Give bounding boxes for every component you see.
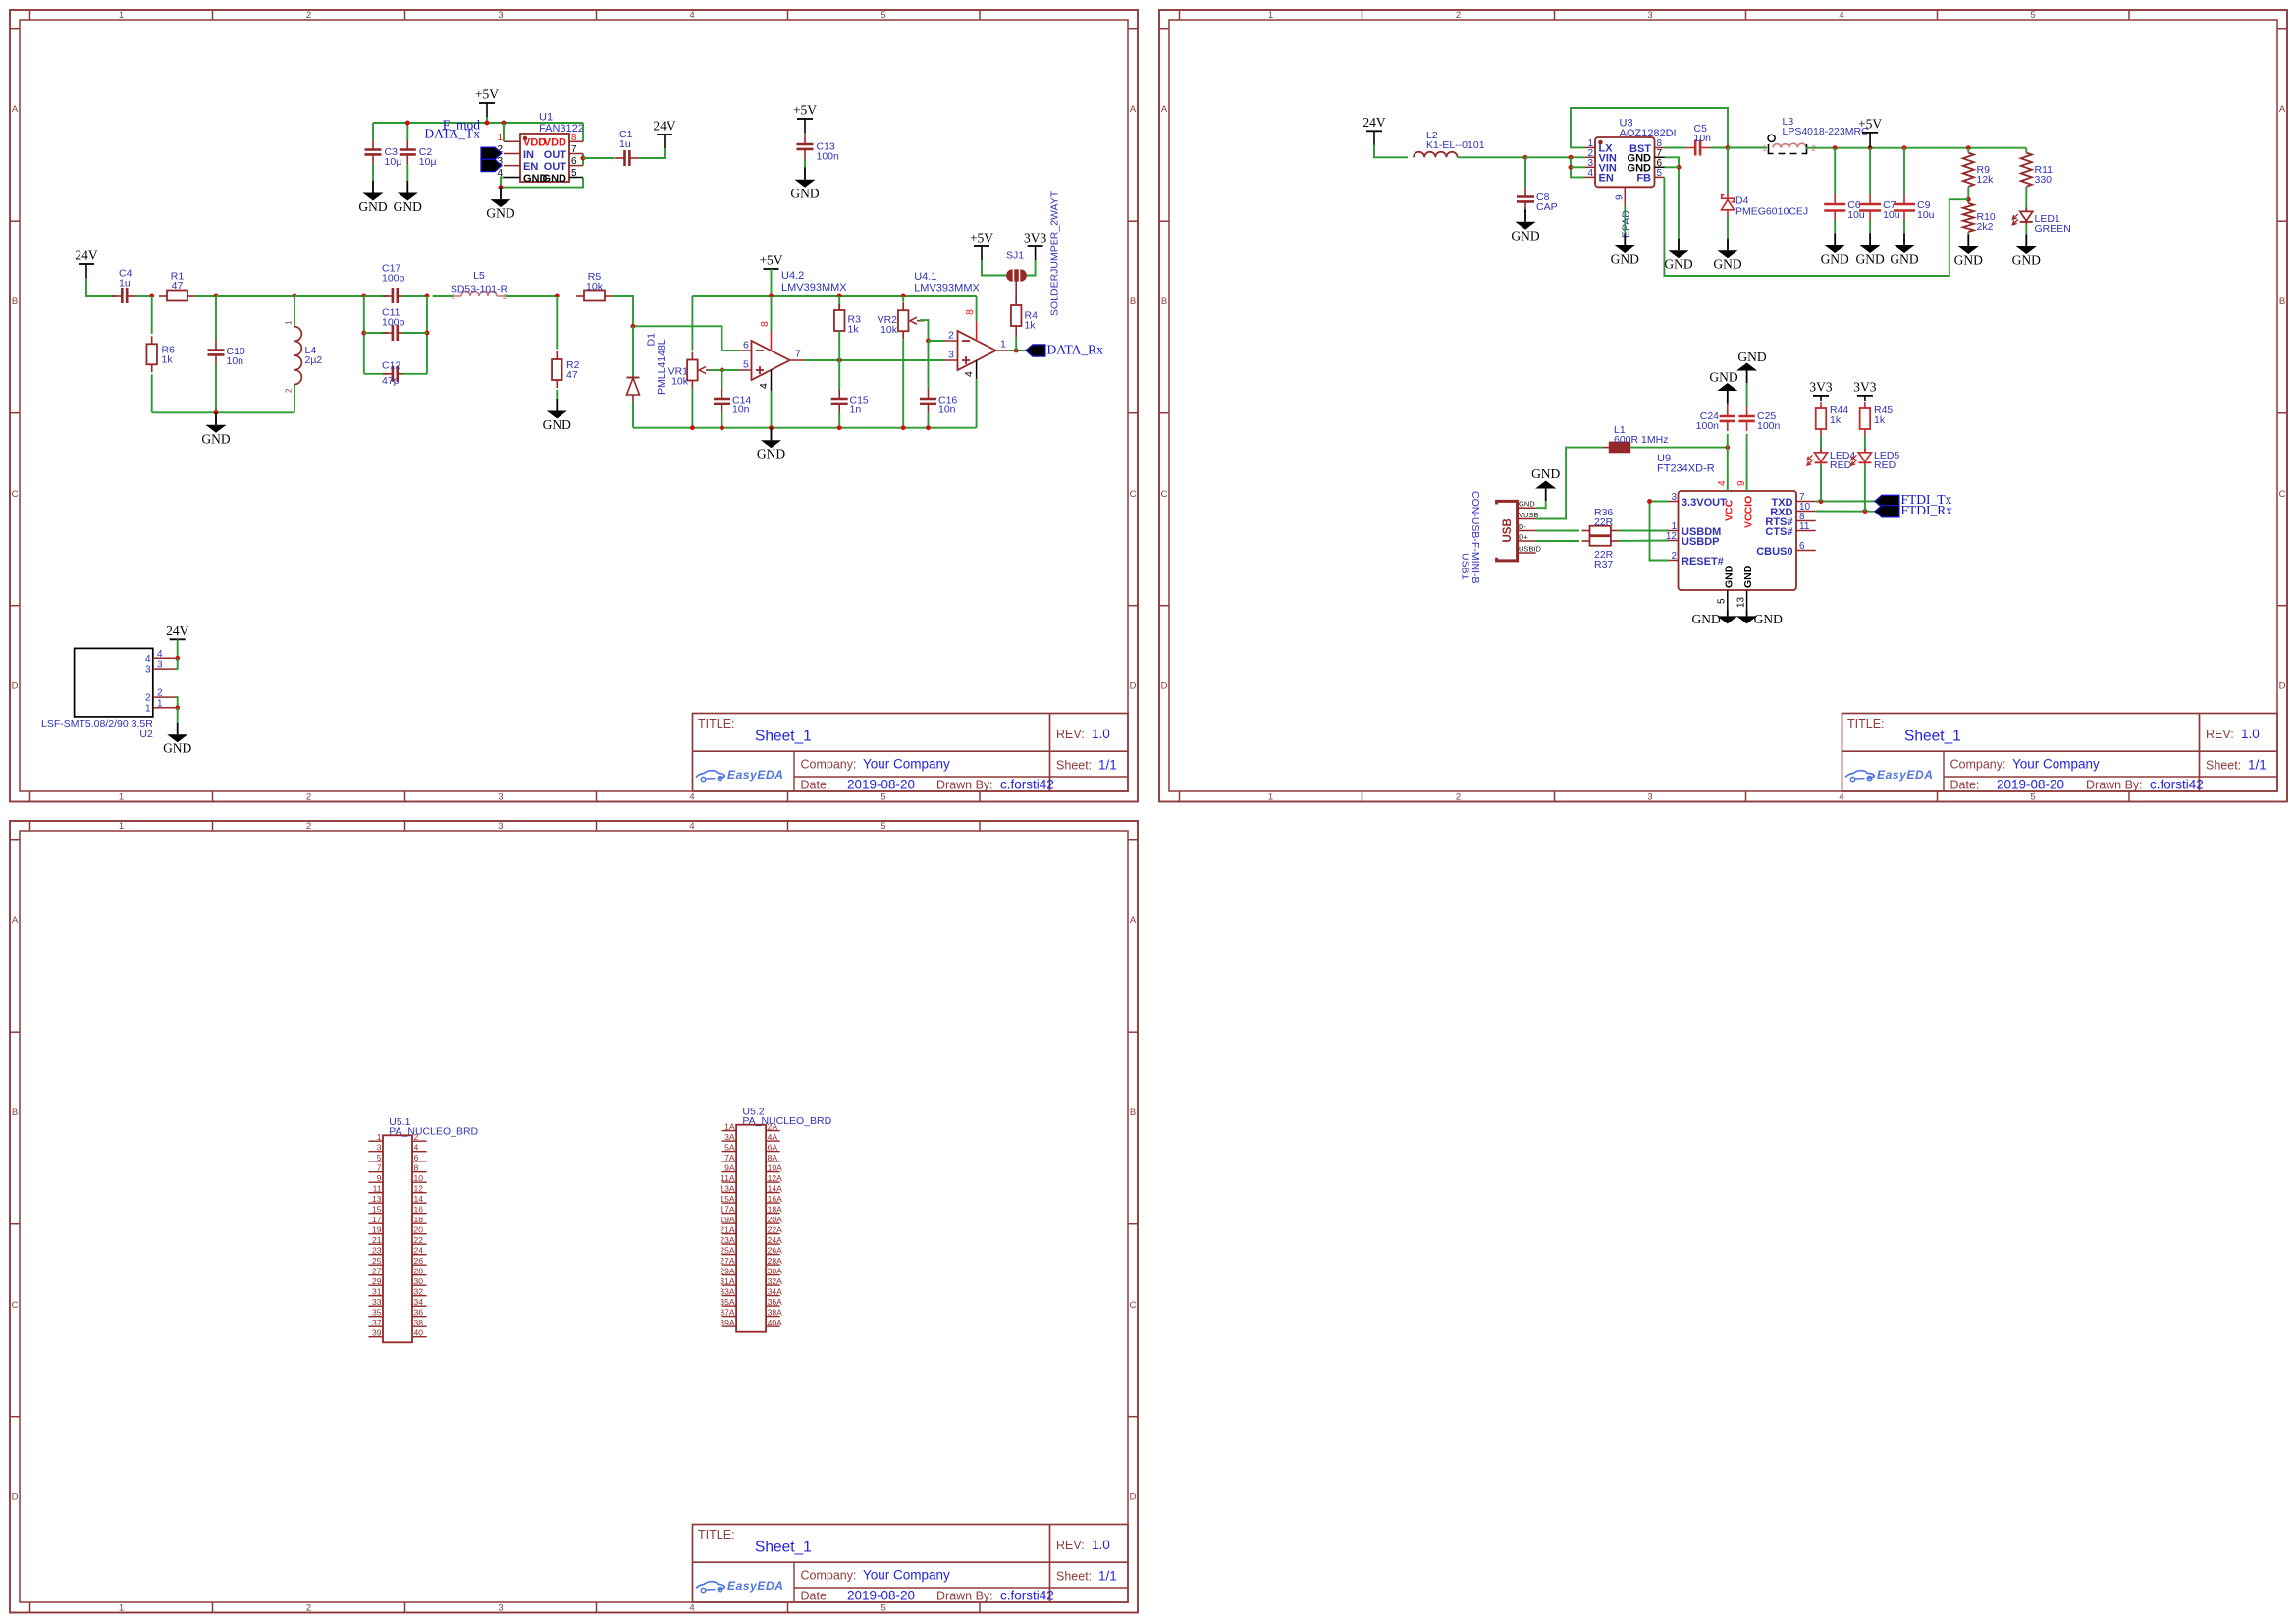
svg-text:GND: GND — [1737, 350, 1766, 364]
svg-text:GND: GND — [1742, 565, 1754, 588]
junction pin1 branch — [502, 121, 507, 126]
wire +5V to C13 black — [804, 119, 806, 133]
svg-text:40A: 40A — [768, 1318, 783, 1327]
svg-text:38: 38 — [414, 1318, 424, 1327]
power flag +5V (U1) — [475, 87, 499, 104]
resistor R2 — [552, 351, 562, 388]
U4.1 labels — [914, 271, 980, 295]
svg-text:A: A — [1161, 104, 1168, 115]
USB1 pin GND — [1518, 500, 1536, 509]
U1 pin 8 — [569, 133, 583, 143]
svg-text:15: 15 — [372, 1205, 382, 1215]
wire R6 bottom — [151, 374, 153, 412]
svg-text:SD53-101-R: SD53-101-R — [451, 284, 508, 296]
junction R9 top — [1966, 145, 1971, 150]
power flag 3V3 (R44) — [1809, 379, 1832, 396]
svg-text:USBID: USBID — [1519, 545, 1542, 554]
U5.2 pin 27A — [720, 1256, 736, 1266]
svg-text:Sheet_1: Sheet_1 — [1904, 729, 1961, 745]
svg-text:3: 3 — [498, 1603, 503, 1614]
svg-text:C12: C12 — [382, 360, 400, 372]
svg-text:13: 13 — [372, 1194, 382, 1204]
svg-text:2: 2 — [285, 388, 294, 393]
svg-text:GND: GND — [1664, 257, 1692, 272]
wire R3 stem — [838, 296, 840, 310]
svg-text:GND: GND — [543, 417, 571, 432]
svg-text:Date:: Date: — [801, 1590, 830, 1603]
svg-text:30A: 30A — [768, 1266, 783, 1275]
wire output line continues — [839, 359, 944, 361]
svg-text:11: 11 — [1799, 521, 1810, 532]
svg-text:19: 19 — [372, 1225, 382, 1235]
junction C11 left — [361, 331, 366, 336]
svg-text:1k: 1k — [1874, 414, 1886, 426]
junction U2 pin4 — [175, 656, 180, 661]
svg-text:6: 6 — [414, 1153, 419, 1162]
svg-text:GND: GND — [1890, 252, 1918, 267]
junction FB node — [1966, 197, 1971, 202]
U5.2 pin 39A — [720, 1318, 736, 1327]
svg-text:1: 1 — [1000, 339, 1006, 351]
wire C4 to node — [136, 295, 152, 297]
junction VR1 wiper — [720, 368, 724, 373]
svg-text:Date:: Date: — [1950, 779, 1980, 792]
resistor R37 — [1582, 536, 1619, 546]
capacitor C2 — [400, 140, 416, 165]
wire 24V stem — [86, 278, 116, 296]
U5.2 pin 30A — [766, 1266, 782, 1275]
svg-text:3V3: 3V3 — [1853, 379, 1876, 394]
capacitor C4 — [112, 288, 136, 303]
svg-text:3: 3 — [1647, 10, 1652, 21]
svg-text:12A: 12A — [768, 1173, 783, 1183]
U5.1 pin 19 — [368, 1225, 383, 1235]
U5.1 pin 2 — [412, 1132, 427, 1142]
svg-text:R37: R37 — [1594, 559, 1613, 570]
junction output/C15 — [837, 358, 842, 363]
op-amp U4.2 LMV393MMX (comparator) — [752, 341, 790, 380]
svg-text:EasyEDA: EasyEDA — [727, 1579, 784, 1593]
junction caps left — [361, 294, 366, 298]
wire 3V3 stem black — [1035, 246, 1037, 260]
wire R11 riser — [2025, 148, 2027, 153]
svg-text:17A: 17A — [720, 1204, 735, 1214]
svg-text:B: B — [12, 297, 18, 307]
wire RESET to 3.3VOUT — [1650, 502, 1669, 561]
svg-text:4: 4 — [689, 821, 694, 832]
capacitor C5 — [1685, 140, 1710, 156]
svg-text:D: D — [12, 681, 19, 692]
U5.1 pin 21 — [368, 1235, 383, 1245]
LED LED5 RED — [1851, 449, 1872, 467]
wire L1 to VCC — [1630, 447, 1728, 449]
USB1 pin USBID — [1518, 545, 1542, 554]
svg-text:38A: 38A — [768, 1307, 783, 1317]
svg-text:2: 2 — [948, 330, 954, 342]
svg-text:36: 36 — [414, 1308, 424, 1318]
power flag 24V (C1) — [653, 119, 676, 135]
svg-text:Company:: Company: — [801, 758, 857, 772]
ground (R2) — [543, 399, 571, 432]
ground (U9 pin5) — [1692, 610, 1738, 626]
svg-text:6: 6 — [743, 340, 749, 351]
junction TXD/LED4 — [1819, 499, 1824, 504]
wire SJ1 right to 3V3 — [1027, 260, 1036, 276]
U4.2 pin 8 supply — [759, 321, 772, 351]
svg-text:25: 25 — [372, 1256, 382, 1266]
svg-text:10µ: 10µ — [385, 156, 402, 168]
U9 pin 3 3.3VOUT — [1669, 492, 1728, 509]
svg-text:47: 47 — [172, 280, 184, 292]
svg-text:7A: 7A — [724, 1153, 735, 1162]
ground (C6) — [1821, 234, 1849, 267]
svg-text:1: 1 — [1763, 144, 1768, 153]
wire C25 to gnd — [1746, 383, 1748, 406]
svg-text:GND: GND — [1709, 370, 1737, 385]
svg-text:1: 1 — [145, 703, 151, 714]
svg-text:1u: 1u — [119, 277, 131, 289]
wire FB feedback — [1664, 177, 1968, 276]
svg-text:c.forsti42: c.forsti42 — [2150, 778, 2204, 792]
U3 pin 8 BST — [1629, 138, 1665, 155]
junction VIN pin2 — [1569, 155, 1574, 160]
U5.1 pin 35 — [368, 1308, 383, 1318]
svg-text:5: 5 — [377, 1153, 382, 1162]
junction caps right — [425, 294, 430, 298]
wire 24V stem black — [85, 264, 87, 278]
svg-text:2: 2 — [1456, 10, 1461, 21]
U5.1 pin 24 — [412, 1246, 427, 1256]
wire C14 top — [721, 370, 723, 389]
svg-text:IN: IN — [523, 149, 534, 161]
U5.2 pin 29A — [720, 1266, 736, 1275]
resistor R6 — [146, 336, 157, 372]
svg-text:GND: GND — [1855, 252, 1884, 267]
wire D1 top — [632, 326, 634, 377]
U5.2 pin 37A — [720, 1307, 736, 1317]
U9 pin 1 USBDM — [1669, 521, 1722, 538]
svg-text:4: 4 — [414, 1143, 419, 1153]
svg-text:5: 5 — [881, 792, 885, 803]
wire SJ1 left to +5V — [982, 260, 1006, 276]
junction gnd rail C14 — [720, 425, 724, 430]
wire L4 node to caps — [294, 295, 364, 297]
wire C10 top — [215, 296, 217, 341]
VR1 labels — [668, 366, 689, 388]
svg-text:4: 4 — [689, 10, 694, 21]
svg-text:11A: 11A — [721, 1173, 735, 1183]
net port DATA_Rx — [1026, 343, 1103, 357]
wire 24V stem (sheet2) — [1374, 145, 1408, 158]
wire +5V stem black — [486, 103, 488, 117]
svg-text:A: A — [1130, 915, 1137, 926]
svg-text:3V3: 3V3 — [1024, 231, 1046, 245]
wire U4.1 pin4 down — [976, 379, 978, 428]
U9 pin 9 VCCIO — [1736, 475, 1755, 528]
wire C12 left — [364, 373, 388, 375]
svg-text:10A: 10A — [768, 1162, 783, 1172]
U5.2 pin 19A — [720, 1215, 736, 1224]
resistor R5 — [576, 291, 613, 301]
wire VR2 stem — [902, 296, 904, 302]
U5.1 pin 6 — [412, 1153, 427, 1162]
svg-text:U4.1: U4.1 — [914, 271, 936, 283]
svg-text:5: 5 — [2030, 792, 2035, 803]
svg-text:2: 2 — [414, 1132, 419, 1142]
resistor R3 — [834, 304, 845, 337]
svg-text:5: 5 — [881, 10, 885, 21]
ground (USB1) — [1531, 466, 1560, 501]
junction C9 — [1902, 145, 1907, 150]
junction gnd rail C16 — [926, 425, 931, 430]
wire C15 bottom — [838, 413, 840, 428]
U5.2 pin 33A — [720, 1286, 736, 1296]
svg-text:28: 28 — [414, 1267, 424, 1276]
U3 pin 4 EN — [1585, 168, 1614, 185]
capacitor C3 — [365, 140, 382, 165]
wire VCCIO up — [1746, 448, 1748, 491]
wire C16 bottom — [928, 413, 930, 428]
svg-text:GND: GND — [1511, 228, 1539, 243]
wire D1 bottom — [632, 401, 634, 428]
svg-text:RESET#: RESET# — [1682, 556, 1724, 568]
svg-text:REV:: REV: — [2206, 728, 2234, 741]
svg-text:EN: EN — [1599, 173, 1614, 185]
U5.2 pin 7A — [722, 1153, 737, 1162]
svg-text:VUSB: VUSB — [1519, 511, 1538, 519]
U5.2 pin 31A — [720, 1276, 736, 1286]
svg-text:LMV393MMX: LMV393MMX — [781, 282, 847, 294]
wire C11 right — [403, 332, 428, 334]
svg-text:SOLDERJUMPER_2WAYT: SOLDERJUMPER_2WAYT — [1049, 190, 1061, 316]
svg-text:4: 4 — [1839, 792, 1843, 803]
U4.1 pin 8 supply — [964, 309, 977, 341]
ground (filter) — [201, 412, 230, 446]
svg-text:15A: 15A — [720, 1194, 735, 1204]
svg-text:30: 30 — [414, 1276, 424, 1286]
svg-text:10k: 10k — [881, 324, 898, 336]
svg-text:8: 8 — [571, 133, 577, 143]
svg-text:B: B — [2279, 297, 2285, 307]
svg-text:10k: 10k — [586, 281, 604, 293]
svg-text:GND: GND — [543, 173, 567, 185]
svg-text:8: 8 — [759, 321, 771, 327]
capacitor C1 — [615, 150, 640, 166]
svg-text:1: 1 — [119, 821, 124, 832]
wire C3 bottom — [372, 164, 374, 181]
wire C16 top — [928, 341, 930, 389]
U5.2 pin 36A — [766, 1297, 782, 1307]
ground (R10) — [1954, 235, 1983, 268]
svg-text:36A: 36A — [768, 1297, 783, 1307]
svg-text:7: 7 — [377, 1163, 382, 1173]
svg-text:B: B — [1130, 1108, 1136, 1118]
wire C7 top — [1869, 148, 1871, 194]
svg-text:330: 330 — [2035, 174, 2053, 186]
capacitor C11 — [383, 325, 407, 341]
potentiometer VR1 — [687, 352, 714, 389]
resistor R11 (zigzag) — [2021, 153, 2032, 187]
svg-text:4: 4 — [689, 792, 694, 803]
svg-text:3: 3 — [498, 10, 503, 21]
U5.1 pin 11 — [368, 1184, 383, 1194]
svg-text:18: 18 — [414, 1215, 424, 1224]
ground (U2) — [163, 723, 191, 756]
svg-text:REV:: REV: — [1056, 1539, 1085, 1552]
svg-text:7: 7 — [795, 349, 801, 360]
inductor L3 LPS4018-223MRC — [1763, 135, 1817, 153]
svg-text:27A: 27A — [720, 1256, 735, 1266]
wire caps left drop — [363, 296, 365, 374]
wire C8 stem — [1524, 157, 1526, 187]
capacitor C25 — [1738, 406, 1754, 431]
wire pin8 supply — [771, 296, 773, 332]
junction C2/top-rail — [405, 121, 410, 126]
U5.2 pin 12A — [766, 1173, 782, 1183]
svg-text:24A: 24A — [768, 1235, 783, 1245]
U5.1 pin 39 — [368, 1328, 383, 1338]
svg-text:1: 1 — [497, 133, 503, 143]
svg-text:10n: 10n — [1694, 133, 1712, 144]
wire pin4 gnd loop — [501, 178, 583, 188]
op-amp U4.1 LMV393MMX (comparator) — [958, 331, 996, 370]
svg-text:+5V: +5V — [475, 87, 499, 102]
C25 labels — [1757, 410, 1781, 432]
wire C11 left — [364, 332, 388, 334]
U5.2 pin 8A — [766, 1153, 780, 1162]
U9 pin 10 RXD — [1770, 502, 1815, 518]
power flag +5V (sheet2) — [1858, 116, 1882, 133]
svg-text:U4.2: U4.2 — [781, 270, 804, 282]
wire L5 to R2 node — [506, 295, 557, 297]
wire VR1 riser — [691, 296, 693, 342]
svg-text:EasyEDA: EasyEDA — [1877, 768, 1934, 782]
svg-text:1A: 1A — [724, 1121, 735, 1131]
capacitor C24 — [1720, 406, 1735, 431]
U5.2 pin 21A — [720, 1224, 736, 1234]
svg-text:D: D — [1130, 1492, 1137, 1503]
connector U2 LSF-SMT5.08 — [75, 648, 153, 717]
svg-text:13A: 13A — [720, 1183, 735, 1193]
U5.2 pin 23A — [720, 1235, 736, 1245]
svg-text:K1-EL--0101: K1-EL--0101 — [1426, 139, 1485, 151]
ground (comparators) — [757, 428, 785, 461]
svg-text:+5V: +5V — [1858, 116, 1882, 131]
U1 pin 3 — [497, 156, 520, 167]
svg-text:10: 10 — [414, 1173, 424, 1183]
svg-text:12k: 12k — [1977, 174, 1995, 186]
junction L4 node — [293, 294, 297, 298]
svg-text:Sheet:: Sheet: — [1056, 1570, 1092, 1584]
svg-text:FTDI_Rx: FTDI_Rx — [1901, 503, 1953, 517]
svg-text:TITLE:: TITLE: — [698, 1528, 735, 1541]
power flag +5V (C13) — [793, 103, 817, 120]
wire L1 left stub — [1603, 447, 1609, 449]
U5.2 pin 10A — [766, 1162, 782, 1172]
LED LED4 RED — [1807, 449, 1828, 467]
op-amp driver U1 FAN3122 box — [520, 134, 569, 182]
svg-text:1/1: 1/1 — [1098, 758, 1117, 773]
svg-text:U2: U2 — [139, 729, 153, 740]
svg-text:GND: GND — [163, 741, 191, 756]
svg-text:B: B — [1130, 297, 1136, 307]
svg-text:AOZ1282DI: AOZ1282DI — [1620, 128, 1677, 139]
svg-text:1n: 1n — [850, 404, 862, 415]
U5.1 pin 27 — [368, 1267, 383, 1276]
wire R1 to C10 node — [195, 295, 216, 297]
svg-text:4: 4 — [1839, 10, 1843, 21]
junction C11 right — [425, 331, 430, 336]
svg-text:1: 1 — [119, 10, 124, 21]
wire C6 top — [1834, 148, 1836, 194]
U5.2 pin 9A — [722, 1162, 737, 1172]
wire C5 to LX node — [1710, 147, 1728, 149]
svg-text:2A: 2A — [768, 1121, 778, 1131]
wire C24 to gnd — [1727, 404, 1729, 407]
svg-text:7: 7 — [571, 144, 577, 155]
wire pin1 to gnd — [177, 708, 179, 723]
wire OUT pins join — [582, 154, 584, 166]
svg-text:D+: D+ — [1519, 533, 1528, 542]
wire R9 top stub — [1967, 148, 1969, 153]
ground (C25) — [1736, 350, 1767, 383]
svg-text:5: 5 — [743, 359, 749, 371]
junction filter gnd — [214, 410, 219, 415]
svg-text:4: 4 — [157, 649, 163, 660]
svg-text:GND: GND — [394, 199, 422, 214]
svg-text:10k: 10k — [671, 375, 689, 387]
svg-text:1k: 1k — [1025, 319, 1037, 331]
svg-text:5: 5 — [1657, 168, 1663, 179]
wire pin2 loop — [175, 697, 178, 708]
ferrite bead L1 600R 1MHz — [1609, 442, 1629, 453]
svg-text:2: 2 — [1671, 551, 1677, 562]
resistor R4 — [1011, 295, 1022, 337]
svg-text:1: 1 — [377, 1132, 382, 1142]
svg-text:C: C — [12, 1300, 19, 1311]
U9 pin 13 GND — [1735, 565, 1754, 610]
wire caps to L5 — [433, 295, 453, 297]
junction D1 node — [631, 324, 636, 329]
junction U2 pin1 — [175, 705, 180, 710]
svg-text:14: 14 — [414, 1194, 424, 1204]
U5.1 pin 7 — [368, 1163, 383, 1173]
wire VR1 drop — [691, 342, 693, 351]
wire LX node down — [1727, 148, 1729, 194]
svg-text:Your Company: Your Company — [2012, 757, 2100, 772]
junction R6 node — [149, 294, 154, 298]
wire R2 top — [556, 296, 558, 350]
svg-text:TITLE:: TITLE: — [698, 717, 735, 730]
U5.1 pin 15 — [368, 1205, 383, 1215]
U2 pin 4 — [145, 649, 175, 665]
U5.2 pin 20A — [766, 1215, 782, 1224]
svg-text:1/1: 1/1 — [1098, 1569, 1117, 1584]
svg-text:8A: 8A — [768, 1153, 778, 1162]
U1 pin 4 — [497, 168, 520, 179]
svg-text:OUT: OUT — [544, 149, 567, 161]
svg-text:10n: 10n — [227, 355, 244, 367]
svg-text:5: 5 — [881, 1603, 885, 1614]
svg-text:3: 3 — [498, 821, 503, 832]
svg-text:GND: GND — [1713, 257, 1741, 272]
svg-text:22A: 22A — [768, 1224, 783, 1234]
net port DATA_Tx — [424, 127, 502, 172]
junction RXD/LED5 — [1862, 509, 1867, 514]
svg-text:1k: 1k — [1830, 414, 1842, 426]
svg-text:3: 3 — [377, 1143, 382, 1153]
U5.2 pin 18A — [766, 1204, 782, 1214]
